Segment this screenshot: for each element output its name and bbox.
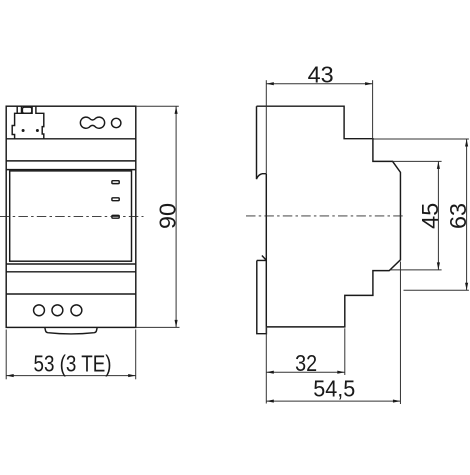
svg-text:45: 45 (417, 203, 443, 229)
svg-text:43: 43 (308, 62, 334, 88)
svg-text:54,5: 54,5 (313, 376, 355, 402)
svg-text:63: 63 (445, 203, 470, 229)
svg-text:53 (3 TE): 53 (3 TE) (34, 350, 112, 376)
svg-text:90: 90 (155, 203, 181, 229)
svg-text:32: 32 (295, 350, 317, 376)
